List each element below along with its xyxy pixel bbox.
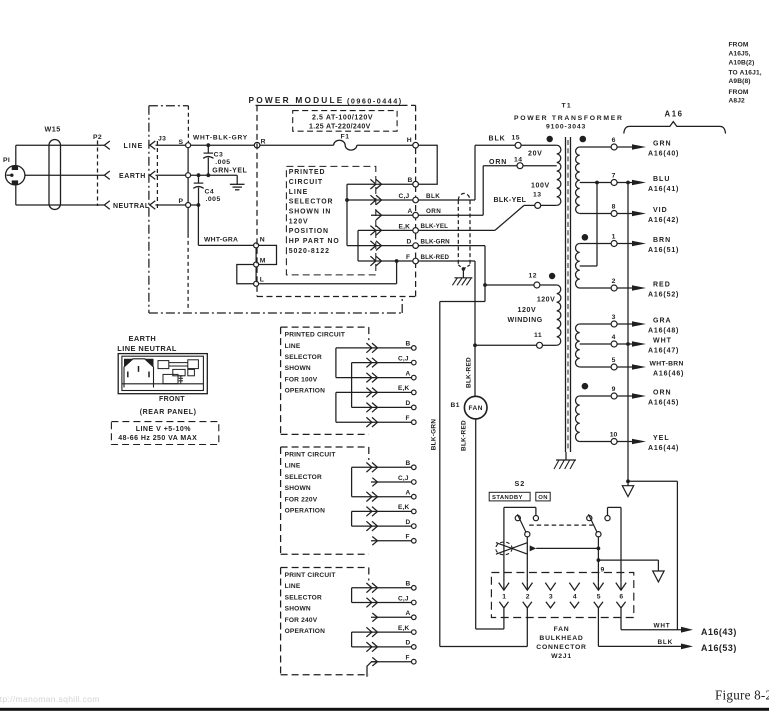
connector pin 1: [503, 583, 505, 590]
svg-text:S2: S2: [515, 479, 526, 488]
svg-text:PRINTED: PRINTED: [289, 169, 326, 176]
svg-text:A16(42): A16(42): [648, 217, 679, 224]
svg-text:SHOWN: SHOWN: [285, 606, 311, 613]
svg-text:E,K: E,K: [398, 504, 410, 511]
svg-text:GRN: GRN: [653, 140, 672, 147]
secondary winding 1-2: [576, 244, 580, 289]
svg-text:FOR 240V: FOR 240V: [285, 617, 318, 624]
selector pin C,J: [412, 600, 417, 605]
polarity dots secondary: [580, 136, 587, 143]
selector jumper wire: [351, 363, 353, 408]
svg-text:ORN: ORN: [653, 389, 672, 396]
svg-text:D: D: [407, 239, 412, 246]
svg-text:TO A16J1,: TO A16J1,: [729, 69, 762, 76]
wire H to B jumper: [418, 145, 437, 184]
svg-text:SELECTOR: SELECTOR: [285, 474, 322, 481]
svg-text:BLK-GRN: BLK-GRN: [431, 419, 438, 451]
svg-text:9100-3043: 9100-3043: [546, 123, 586, 130]
svg-text:F: F: [406, 254, 410, 261]
wire pin2 to BLK-GRN: [526, 608, 528, 647]
selector jumper wire: [351, 632, 353, 647]
svg-text:7: 7: [612, 172, 616, 179]
svg-text:POSITION: POSITION: [289, 228, 329, 235]
A16 bus: [627, 183, 629, 486]
secondary pin 1 (BRN): [580, 243, 611, 245]
svg-text:BLK: BLK: [426, 193, 440, 200]
svg-text:BLU: BLU: [653, 176, 670, 183]
svg-text:3: 3: [612, 314, 616, 321]
selector pin C,J: [371, 481, 412, 483]
svg-text:WHT: WHT: [653, 337, 672, 344]
svg-text:B: B: [406, 341, 411, 348]
secondary pin 9 (ORN): [580, 395, 611, 397]
secondary winding 6-7-8: [575, 147, 579, 214]
svg-text:B: B: [408, 177, 413, 184]
svg-text:PRINT CIRCUIT: PRINT CIRCUIT: [285, 572, 336, 579]
svg-text:D: D: [406, 640, 411, 647]
capacitor C4: [198, 175, 200, 182]
svg-text:A: A: [406, 370, 411, 377]
svg-text:9: 9: [612, 386, 616, 393]
svg-text:PI: PI: [3, 157, 10, 164]
wire M-L link: [237, 265, 254, 284]
svg-text:6: 6: [619, 594, 623, 601]
svg-text:6: 6: [612, 137, 616, 144]
svg-text:120V: 120V: [289, 218, 309, 225]
chassis boundary (dash-dot): [149, 105, 189, 107]
inlet outline: [124, 359, 154, 388]
pins B,CJ,A,EK,D,F: [370, 179, 376, 189]
svg-text:F: F: [406, 534, 410, 541]
wire BLK-RED (F to pin 11 and fan): [418, 260, 475, 262]
connector pin 4: [569, 583, 579, 591]
svg-text:A16(45): A16(45): [648, 400, 679, 407]
svg-text:14: 14: [514, 156, 523, 163]
svg-text:LINE V +5-10%: LINE V +5-10%: [136, 426, 192, 433]
svg-text:WHT: WHT: [654, 622, 671, 629]
chassis ground (core): [565, 452, 567, 460]
svg-text:WINDING: WINDING: [508, 317, 543, 324]
line rating box: [111, 422, 218, 445]
A16 brace: [624, 122, 726, 134]
primary winding 20V/100V: [557, 145, 561, 205]
svg-text:OPERATION: OPERATION: [285, 628, 326, 635]
selector pin B: [412, 346, 417, 351]
selector internal wiring: [346, 184, 348, 245]
svg-text:BLK-YEL: BLK-YEL: [421, 223, 449, 230]
svg-text:B1: B1: [451, 402, 460, 409]
svg-text:PRINTED CIRCUIT: PRINTED CIRCUIT: [285, 332, 346, 339]
connector W2J1 box: [491, 573, 633, 618]
svg-text:A: A: [406, 490, 411, 497]
svg-text:LINE: LINE: [285, 343, 301, 350]
svg-text:C3: C3: [214, 152, 224, 159]
svg-text:A16(47): A16(47): [648, 348, 679, 355]
wire pin5 to A16(53): [597, 608, 599, 647]
selector box 100V: [281, 326, 369, 328]
svg-text:A: A: [406, 610, 411, 617]
wire P1 earth: [25, 174, 104, 176]
selector jumper wire: [335, 348, 337, 378]
svg-text:A16J5,: A16J5,: [729, 50, 751, 57]
svg-text:4: 4: [573, 594, 577, 601]
svg-text:SHOWN IN: SHOWN IN: [289, 209, 331, 216]
svg-text:A16(46): A16(46): [653, 371, 684, 378]
svg-text:C4: C4: [205, 188, 215, 195]
svg-text:LINE: LINE: [289, 189, 308, 196]
svg-text:10: 10: [610, 431, 618, 438]
svg-text:STANDBY: STANDBY: [492, 495, 523, 501]
svg-text:POWER TRANSFORMER: POWER TRANSFORMER: [514, 115, 624, 122]
selector pin E,K: [412, 390, 417, 395]
svg-text:5: 5: [612, 357, 616, 364]
svg-text:RED: RED: [653, 281, 671, 288]
svg-text:.005: .005: [215, 159, 230, 166]
svg-text:CIRCUIT: CIRCUIT: [289, 179, 323, 186]
svg-text:C,J: C,J: [399, 193, 410, 200]
svg-text:ORN: ORN: [489, 159, 507, 166]
svg-text:N: N: [260, 237, 265, 244]
svg-text:HP PART NO: HP PART NO: [289, 238, 340, 245]
selector pin F: [412, 420, 417, 425]
svg-text:1.25 AT-220/240V: 1.25 AT-220/240V: [309, 123, 371, 130]
wire BLK (C,J to pin 15): [418, 199, 475, 201]
S2 mechanical link: [529, 524, 593, 526]
svg-text:2: 2: [526, 594, 530, 601]
svg-text:GRA: GRA: [653, 317, 672, 324]
svg-text:(REAR PANEL): (REAR PANEL): [140, 409, 197, 416]
svg-text:SELECTOR: SELECTOR: [289, 199, 334, 206]
selector pin A: [412, 375, 417, 380]
svg-text:LINE: LINE: [285, 583, 301, 590]
svg-text:BLK: BLK: [658, 639, 674, 646]
fuse F1 rating box: [293, 111, 397, 132]
svg-text:1: 1: [502, 594, 506, 601]
svg-text:F1: F1: [341, 133, 350, 140]
svg-text:WHT-GRA: WHT-GRA: [204, 237, 238, 244]
svg-text:12: 12: [529, 272, 538, 279]
svg-text:20V: 20V: [528, 150, 543, 157]
svg-text:SELECTOR: SELECTOR: [285, 594, 322, 601]
svg-text:5020-8122: 5020-8122: [289, 248, 330, 255]
selector pin B: [412, 586, 417, 591]
wire P1 line: [15, 145, 17, 165]
selector jumper wire: [351, 467, 353, 496]
svg-text:SELECTOR: SELECTOR: [285, 354, 322, 361]
wire BLK-GRN (D to pin 12 and S2): [418, 245, 485, 247]
wire P1 neutral: [15, 185, 17, 205]
connector pin 3: [545, 583, 555, 591]
selector jumper wire: [351, 511, 353, 526]
svg-text:FOR 220V: FOR 220V: [285, 496, 318, 503]
svg-text:A9B(8): A9B(8): [729, 78, 751, 85]
svg-text:Figure 8-24: Figure 8-24: [715, 688, 769, 703]
svg-text:E,K: E,K: [399, 223, 411, 230]
svg-text:2.5 AT-100/120V: 2.5 AT-100/120V: [312, 114, 373, 121]
selector jumper wire: [351, 588, 353, 603]
svg-text:OPERATION: OPERATION: [285, 388, 326, 395]
selector pin E,K: [412, 630, 417, 635]
svg-text:FAN: FAN: [468, 405, 483, 412]
secondary winding 3-4-5: [576, 324, 580, 367]
svg-text:WHT-BLK-GRY: WHT-BLK-GRY: [193, 135, 248, 142]
svg-text:SHOWN: SHOWN: [285, 365, 311, 372]
transformer core: [565, 137, 567, 452]
svg-text:GRN-YEL: GRN-YEL: [212, 168, 247, 175]
wire WHT-GRA: [197, 203, 201, 207]
selector pin B: [412, 465, 417, 470]
svg-text:T1: T1: [562, 103, 572, 110]
svg-text:BLK-RED: BLK-RED: [421, 254, 450, 261]
svg-text:(0960-0444): (0960-0444): [347, 96, 403, 105]
svg-text:A16(40): A16(40): [648, 151, 679, 158]
tap 7 to winding 1-2 tap: [596, 183, 598, 267]
svg-text:BLK-GRN: BLK-GRN: [421, 238, 451, 245]
svg-text:E,K: E,K: [398, 385, 410, 392]
svg-text:ON: ON: [538, 495, 548, 501]
wire L to F: [259, 283, 397, 285]
svg-text:FROM: FROM: [729, 89, 749, 96]
svg-text:B: B: [406, 460, 411, 467]
svg-text:.005: .005: [206, 196, 221, 203]
selector pin A: [412, 494, 417, 499]
svg-text:A16(41): A16(41): [648, 186, 679, 193]
svg-text:BLK: BLK: [489, 136, 506, 143]
svg-text:120V: 120V: [518, 307, 537, 314]
svg-text:A16(44): A16(44): [648, 445, 679, 452]
wire fan to connector pin 1: [475, 419, 477, 629]
selector jumper wire: [335, 392, 337, 422]
S2 section B: [608, 506, 622, 508]
svg-text:P: P: [179, 198, 184, 205]
svg-text:1: 1: [612, 233, 616, 240]
svg-text:W2J1: W2J1: [551, 653, 572, 660]
connector pin 5: [597, 583, 599, 590]
primary winding 120V: [557, 285, 561, 345]
svg-text:A8J2: A8J2: [729, 97, 746, 104]
svg-text:13: 13: [533, 192, 542, 199]
connector pin 2: [526, 583, 528, 590]
svg-text:R: R: [261, 138, 266, 145]
wire F to box edge: [367, 662, 378, 677]
svg-text:FAN: FAN: [554, 626, 570, 633]
wire BLK-YEL (E,K to pin 13): [418, 229, 495, 231]
secondary pin 5 (WHT-BRN): [580, 366, 611, 368]
svg-text:C,J: C,J: [398, 475, 409, 482]
selector box 240V: [281, 567, 369, 569]
svg-text:LINE: LINE: [285, 463, 301, 470]
svg-text:D: D: [406, 519, 411, 526]
svg-text:ttp://manoman.sqhill.com: ttp://manoman.sqhill.com: [0, 694, 100, 704]
fuse holder detail: [158, 361, 169, 369]
printed circuit line selector (120V) box: [286, 166, 375, 275]
secondary pin 2 (RED): [580, 287, 611, 289]
selector pin D: [412, 645, 417, 650]
wire bus to A16(43): [628, 480, 677, 482]
svg-text:J3: J3: [158, 136, 166, 143]
svg-text:M: M: [260, 257, 266, 264]
svg-text:SHOWN: SHOWN: [285, 485, 311, 492]
lamp (crossed circle): [496, 542, 512, 555]
svg-text:A16: A16: [665, 109, 684, 118]
svg-text:48-66 Hz 250 VA MAX: 48-66 Hz 250 VA MAX: [118, 435, 197, 442]
chassis ground (shield): [454, 277, 472, 279]
selector pin F: [412, 659, 417, 664]
svg-text:D: D: [406, 400, 411, 407]
svg-text:5: 5: [597, 594, 601, 601]
svg-text:BRN: BRN: [653, 237, 671, 244]
svg-text:BLK-RED: BLK-RED: [461, 420, 468, 451]
svg-text:PRINT CIRCUIT: PRINT CIRCUIT: [285, 452, 336, 459]
svg-text:A: A: [408, 208, 413, 215]
svg-text:A16(48): A16(48): [648, 328, 679, 335]
bottom rule: [0, 708, 769, 711]
svg-text:L: L: [260, 277, 264, 284]
svg-text:P2: P2: [93, 134, 102, 141]
wire ORN (A to pin 14): [418, 214, 483, 216]
secondary pin 4 (WHT): [580, 343, 611, 345]
svg-text:EARTH: EARTH: [119, 173, 146, 180]
svg-text:BULKHEAD: BULKHEAD: [539, 635, 583, 642]
svg-text:A16(51): A16(51): [648, 247, 679, 254]
svg-text:VID: VID: [653, 207, 668, 214]
cable shield: [458, 193, 470, 200]
svg-text:ORN: ORN: [426, 208, 441, 215]
svg-text:WHT-BRN: WHT-BRN: [650, 360, 684, 367]
svg-text:15: 15: [512, 134, 521, 141]
svg-text:E,K: E,K: [398, 625, 410, 632]
svg-text:4: 4: [612, 334, 616, 341]
secondary pin 8 (VID): [580, 213, 611, 215]
svg-text:F: F: [406, 655, 410, 662]
svg-text:2: 2: [612, 278, 616, 285]
svg-text:FROM: FROM: [729, 41, 749, 48]
svg-text:A10B(2): A10B(2): [729, 60, 755, 67]
connector pin 6: [620, 583, 622, 590]
wire pin6 to A16(43): [620, 608, 622, 630]
svg-text:C,J: C,J: [398, 595, 409, 602]
svg-text:11: 11: [534, 332, 542, 339]
svg-text:W15: W15: [45, 125, 61, 134]
svg-text:8: 8: [612, 203, 616, 210]
svg-text:LINE NEUTRAL: LINE NEUTRAL: [117, 344, 177, 353]
svg-text:NEUTRAL: NEUTRAL: [113, 203, 150, 210]
svg-text:BLK-RED: BLK-RED: [466, 357, 473, 388]
svg-text:OPERATION: OPERATION: [285, 508, 326, 515]
secondary pin 10 (YEL): [580, 441, 611, 443]
svg-text:3: 3: [549, 594, 553, 601]
selector pin F: [371, 540, 412, 542]
svg-text:A16(52): A16(52): [648, 292, 679, 299]
secondary winding 9-10: [576, 396, 580, 442]
svg-text:FOR 100V: FOR 100V: [285, 376, 318, 383]
S2 section A: [504, 506, 536, 508]
svg-text:EARTH: EARTH: [129, 334, 157, 343]
svg-text:CONNECTOR: CONNECTOR: [536, 644, 586, 651]
svg-text:B: B: [406, 581, 411, 588]
resistor-fuse F1 wire R to H: [260, 144, 334, 146]
svg-text:A16(53): A16(53): [701, 643, 737, 653]
svg-text:A16(43): A16(43): [701, 627, 737, 637]
svg-text:LINE: LINE: [124, 143, 144, 150]
selector box 220V: [281, 446, 369, 448]
svg-text:POWER MODULE: POWER MODULE: [249, 95, 345, 105]
ground (earth): [236, 175, 238, 184]
svg-text:120V: 120V: [537, 296, 555, 303]
selector pin D: [412, 405, 417, 410]
svg-text:100V: 100V: [531, 182, 550, 189]
svg-text:YEL: YEL: [653, 435, 670, 442]
wire earth row: [191, 174, 238, 176]
svg-text:F: F: [406, 415, 410, 422]
capacitor C3: [207, 145, 209, 152]
secondary pin 3 (GRA): [580, 323, 611, 325]
selector pin D: [412, 524, 417, 529]
svg-text:FRONT: FRONT: [159, 396, 185, 403]
selector pin C,J: [412, 360, 417, 365]
polarity dots primary: [547, 136, 553, 142]
svg-text:H: H: [407, 137, 412, 144]
secondary pin 6 (GRN): [580, 146, 611, 148]
selector pin A: [371, 616, 412, 618]
selector pin E,K: [412, 509, 417, 514]
secondary pin 7 (BLU): [580, 182, 611, 184]
svg-text:C,J: C,J: [398, 355, 409, 362]
wire N-M link: [259, 245, 277, 264]
svg-text:BLK-YEL: BLK-YEL: [494, 197, 527, 204]
